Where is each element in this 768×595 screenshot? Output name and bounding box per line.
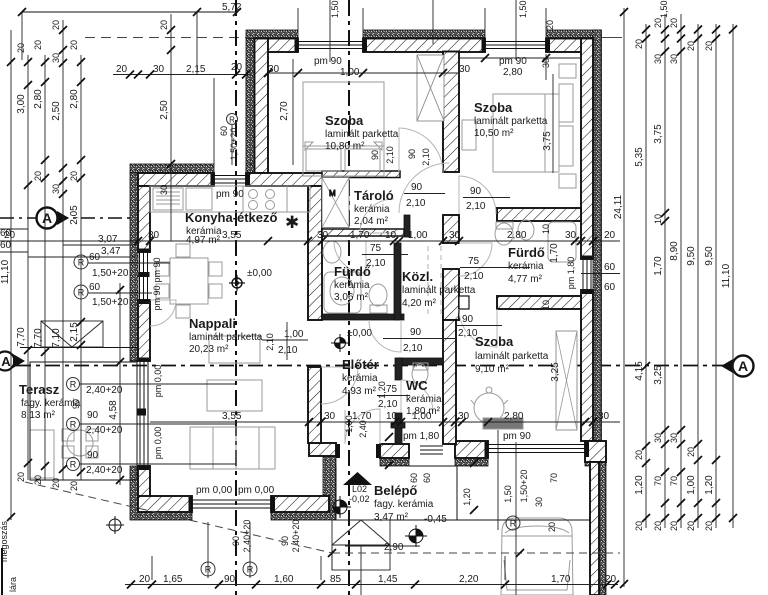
thin wall furdo1 south <box>322 314 404 320</box>
svg-text:30: 30 <box>669 433 679 443</box>
svg-text:60: 60 <box>0 240 12 251</box>
window szoba3 south 2,80 <box>488 444 585 446</box>
svg-text:1,00: 1,00 <box>340 67 360 78</box>
svg-text:2,10: 2,10 <box>466 201 486 212</box>
car <box>501 518 573 595</box>
svg-text:30: 30 <box>449 230 461 241</box>
svg-text:2,10: 2,10 <box>406 198 426 209</box>
svg-text:1,50: 1,50 <box>503 485 513 503</box>
door szoba3 <box>459 309 497 347</box>
svg-text:2,10: 2,10 <box>278 345 298 356</box>
hatch west wall segs <box>138 186 150 252</box>
svg-text:20: 20 <box>545 20 555 30</box>
right dimension cluster <box>613 8 737 588</box>
svg-text:3,47: 3,47 <box>101 246 121 257</box>
shafts and closets <box>322 55 577 430</box>
dim line R7 <box>732 24 734 528</box>
svg-text:3,55: 3,55 <box>222 230 242 241</box>
svg-text:9,50: 9,50 <box>686 246 697 266</box>
svg-text:laminált parketta: laminált parketta <box>189 332 263 343</box>
svg-text:90: 90 <box>410 327 422 338</box>
svg-text:2,40+20: 2,40+20 <box>291 520 301 553</box>
extension line x433 <box>432 0 434 44</box>
dim line x120 <box>119 283 121 485</box>
svg-text:2,50: 2,50 <box>51 101 62 121</box>
svg-text:Szoba: Szoba <box>325 113 364 128</box>
interior dim chain y422 <box>150 411 620 426</box>
svg-text:✱: ✱ <box>285 213 299 232</box>
dim line R1 24,11 <box>623 8 625 587</box>
svg-text:30: 30 <box>148 230 160 241</box>
stipple porch east wall <box>599 462 606 595</box>
svg-text:3,75: 3,75 <box>542 131 553 151</box>
dim line R2 <box>645 24 647 528</box>
window kitchen north <box>214 175 246 177</box>
top boundary line 5,72 <box>22 11 237 13</box>
svg-text:2,05: 2,05 <box>69 205 80 225</box>
svg-text:1,70: 1,70 <box>352 411 372 422</box>
svg-text:3,25: 3,25 <box>653 365 664 385</box>
entrance triangle <box>343 472 372 485</box>
svg-text:3,07: 3,07 <box>98 234 118 245</box>
door entrance <box>345 409 380 444</box>
svg-text:2,40: 2,40 <box>358 420 368 438</box>
axis line left A marker <box>0 217 135 219</box>
svg-text:60: 60 <box>422 473 432 483</box>
svg-text:20: 20 <box>669 521 679 531</box>
svg-text:L02: L02 <box>352 484 367 494</box>
szoba3 round table <box>474 393 504 423</box>
svg-text:20: 20 <box>231 62 243 73</box>
shaft szoba1 east <box>417 55 444 121</box>
svg-text:1,20: 1,20 <box>634 475 645 495</box>
svg-text:2,40+20: 2,40+20 <box>86 425 123 436</box>
svg-text:1,50+20: 1,50+20 <box>330 0 340 18</box>
svg-text:1,50+20: 1,50+20 <box>92 268 129 279</box>
hatch east wall <box>581 39 593 260</box>
szoba3 dark rect <box>483 418 523 429</box>
R marker kitchen window <box>219 114 239 166</box>
hatch nappali SE corner wall <box>309 443 336 456</box>
terrain dashed line top <box>85 37 246 39</box>
svg-text:7,10: 7,10 <box>51 328 62 348</box>
section line A-A <box>16 365 730 367</box>
svg-text:2,80: 2,80 <box>69 89 80 109</box>
svg-text:20: 20 <box>653 18 663 28</box>
svg-text:fagy. kerámia: fagy. kerámia <box>374 499 434 510</box>
svg-text:2,80: 2,80 <box>33 89 44 109</box>
walls-exterior <box>130 30 606 595</box>
svg-text:20: 20 <box>139 574 151 585</box>
svg-text:pm 90: pm 90 <box>503 431 531 442</box>
svg-text:60: 60 <box>89 252 101 263</box>
svg-text:4,15: 4,15 <box>634 361 645 381</box>
svg-text:laminált parketta: laminált parketta <box>474 116 548 127</box>
svg-text:3,06 m²: 3,06 m² <box>334 292 369 303</box>
hatch bottom wall <box>138 496 192 512</box>
svg-text:2,10: 2,10 <box>464 271 484 282</box>
stipple west upper <box>246 39 255 174</box>
svg-text:10,80 m²: 10,80 m² <box>325 141 365 152</box>
svg-text:2,40+20: 2,40+20 <box>86 465 123 476</box>
svg-text:10,50 m²: 10,50 m² <box>474 128 514 139</box>
dim line R3 <box>664 14 666 528</box>
svg-text:R: R <box>78 258 85 268</box>
dim line R6 <box>715 24 717 528</box>
furdo1 tub <box>324 272 361 313</box>
svg-text:kerámia: kerámia <box>354 204 390 215</box>
svg-text:90: 90 <box>71 399 81 409</box>
svg-text:70: 70 <box>549 473 559 483</box>
svg-text:70: 70 <box>653 476 663 486</box>
svg-text:20,23 m²: 20,23 m² <box>189 344 229 355</box>
door wc <box>401 380 433 412</box>
dashed 2,90 line <box>25 482 620 557</box>
svg-text:20: 20 <box>634 450 644 460</box>
svg-text:Fürdő: Fürdő <box>508 245 545 260</box>
svg-text:laminált parketta: laminált parketta <box>402 285 476 296</box>
kitchen table <box>170 258 208 304</box>
dim line x11 <box>10 30 12 520</box>
svg-text:60: 60 <box>409 473 419 483</box>
svg-text:2,10: 2,10 <box>458 328 478 339</box>
left A axis marker <box>37 208 70 229</box>
svg-text:1,20: 1,20 <box>462 488 472 506</box>
svg-text:10: 10 <box>653 214 663 224</box>
svg-text:1,65: 1,65 <box>163 574 183 585</box>
svg-text:20: 20 <box>547 522 557 532</box>
door szoba2 <box>399 163 449 213</box>
sofa <box>190 427 275 469</box>
svg-text:1,50+20: 1,50+20 <box>659 0 669 18</box>
svg-text:3,47 m²: 3,47 m² <box>374 512 409 523</box>
svg-text:pm 90: pm 90 <box>152 285 162 310</box>
svg-text:20: 20 <box>604 230 616 241</box>
svg-text:9,50: 9,50 <box>704 246 715 266</box>
porch paving lines <box>457 519 590 521</box>
svg-text:laminált parketta: laminált parketta <box>475 351 549 362</box>
svg-text:4,58: 4,58 <box>108 400 119 420</box>
svg-text:2,15: 2,15 <box>186 64 206 75</box>
axis vertical 2 <box>348 0 350 595</box>
doors arcs <box>150 128 497 444</box>
svg-text:2,80: 2,80 <box>507 230 527 241</box>
svg-text:20: 20 <box>69 171 79 181</box>
svg-text:20: 20 <box>116 64 128 75</box>
svg-text:30: 30 <box>153 64 165 75</box>
thin wall furdo1-kozl <box>394 243 401 320</box>
svg-text:1,70: 1,70 <box>350 230 370 241</box>
interior dim chain y241 <box>0 230 620 245</box>
windows <box>138 42 621 509</box>
door eloter-nappali <box>321 367 358 404</box>
thin wall tarolo south <box>322 229 404 236</box>
terasz R rows <box>67 378 237 422</box>
svg-text:11,10: 11,10 <box>0 259 11 284</box>
svg-text:M: M <box>329 189 336 198</box>
svg-text:20: 20 <box>653 521 663 531</box>
svg-text:Szoba: Szoba <box>474 100 513 115</box>
svg-text:20: 20 <box>16 472 26 482</box>
reference thin lines <box>18 8 622 75</box>
svg-text:A: A <box>1 354 11 369</box>
svg-text:85: 85 <box>330 574 342 585</box>
svg-text:5,35: 5,35 <box>634 147 645 167</box>
svg-text:30: 30 <box>317 230 329 241</box>
svg-text:60: 60 <box>219 126 229 136</box>
svg-text:10: 10 <box>385 230 397 241</box>
svg-text:5,72: 5,72 <box>222 2 242 13</box>
svg-text:30: 30 <box>669 54 679 64</box>
svg-text:R: R <box>70 420 77 430</box>
hatch porch east wall <box>590 462 599 595</box>
wall V2 szoba2 side <box>443 52 459 173</box>
svg-text:1,20: 1,20 <box>704 475 715 495</box>
svg-text:3,75: 3,75 <box>653 124 664 144</box>
svg-text:20: 20 <box>704 521 714 531</box>
svg-text:2,04 m²: 2,04 m² <box>354 216 389 227</box>
svg-text:24,11: 24,11 <box>613 194 624 219</box>
svg-text:laminált parketta: laminált parketta <box>325 129 399 140</box>
svg-text:2,10: 2,10 <box>403 343 423 354</box>
hatch wc south wall <box>380 444 409 458</box>
svg-text:3,00: 3,00 <box>16 94 27 114</box>
bottom R circles <box>201 562 215 576</box>
room labels <box>19 100 549 525</box>
svg-text:10: 10 <box>541 224 551 234</box>
furdo1 sink <box>323 241 341 263</box>
svg-text:20: 20 <box>704 41 714 51</box>
tarolo SE post <box>404 215 410 237</box>
svg-text:kerámia: kerámia <box>334 280 370 291</box>
svg-text:4,20 m²: 4,20 m² <box>402 298 437 309</box>
section A marker right <box>721 356 754 377</box>
belepo porch dims <box>377 381 559 532</box>
svg-text:pm 90: pm 90 <box>216 189 244 200</box>
section A marker left <box>0 352 25 371</box>
svg-text:7,70: 7,70 <box>16 327 27 347</box>
svg-text:9,10 m²: 9,10 m² <box>475 364 510 375</box>
dim line szoba2 window y58 <box>459 54 581 62</box>
crosshair symbols <box>106 275 427 547</box>
svg-text:±0,00: ±0,00 <box>347 328 372 339</box>
svg-text:20: 20 <box>33 40 43 50</box>
svg-text:11,10: 11,10 <box>721 263 732 288</box>
svg-text:90: 90 <box>87 450 99 461</box>
svg-text:20: 20 <box>51 478 61 488</box>
svg-text:pm 0,00: pm 0,00 <box>153 365 163 398</box>
dim line R4 <box>680 14 682 528</box>
dim line x63 <box>62 20 64 480</box>
stove <box>243 186 287 212</box>
svg-text:R: R <box>78 288 85 298</box>
window wc south 1,00 <box>420 445 443 447</box>
svg-text:2,15: 2,15 <box>69 322 80 342</box>
door furdo2 <box>459 243 492 276</box>
terasz table <box>67 430 93 456</box>
svg-text:1,70: 1,70 <box>551 574 571 585</box>
svg-text:lára: lára <box>8 577 18 592</box>
hatch szoba3 south wall <box>455 441 488 458</box>
door furdo1 <box>334 241 366 273</box>
closet M tarolo <box>322 178 349 228</box>
svg-text:1,20: 1,20 <box>377 381 387 399</box>
szoba2 small rect left <box>462 120 476 150</box>
svg-text:90: 90 <box>407 149 417 159</box>
top-left chain y74 <box>113 62 250 164</box>
window nappali south <box>192 499 271 501</box>
svg-text:A: A <box>42 210 52 226</box>
wall H2 furdo2 south <box>497 296 581 309</box>
dim line x171 <box>170 14 172 241</box>
stipple kitchen north <box>130 164 214 173</box>
dim line x81 <box>80 55 82 480</box>
svg-text:Tároló: Tároló <box>354 188 394 203</box>
window W1 top 1,00 <box>298 41 363 43</box>
window west pm90 <box>139 252 141 300</box>
dim line x45 <box>44 55 46 480</box>
door tarolo <box>360 199 394 233</box>
svg-text:2,80: 2,80 <box>504 411 524 422</box>
svg-text:20: 20 <box>33 171 43 181</box>
svg-text:1,45: 1,45 <box>378 574 398 585</box>
svg-text:90: 90 <box>87 410 99 421</box>
svg-text:90: 90 <box>231 536 241 546</box>
walls-interior <box>308 52 581 445</box>
wall kitchen-hall x308 <box>308 186 322 320</box>
svg-text:kerámia: kerámia <box>406 394 442 405</box>
svg-text:-0,02: -0,02 <box>349 494 370 504</box>
svg-text:R: R <box>229 116 235 125</box>
window jamb posts <box>139 40 592 512</box>
svg-text:2,10: 2,10 <box>378 399 398 410</box>
svg-text:1,60: 1,60 <box>274 574 294 585</box>
belepo slab <box>336 466 457 520</box>
svg-text:Szoba: Szoba <box>475 334 514 349</box>
svg-text:2,40+20: 2,40+20 <box>86 385 123 396</box>
svg-text:1,00: 1,00 <box>412 411 432 422</box>
svg-text:30: 30 <box>653 433 663 443</box>
thin wall wc west stub <box>395 358 402 380</box>
svg-text:20: 20 <box>16 43 26 53</box>
window extension lines top <box>298 8 546 30</box>
window W2 top 2,80 <box>485 41 546 43</box>
furdo2 toilet <box>495 223 513 245</box>
furdo2 tub <box>548 222 576 262</box>
svg-text:30: 30 <box>598 411 610 422</box>
svg-text:75: 75 <box>468 256 480 267</box>
svg-text:R: R <box>510 519 517 529</box>
svg-text:30: 30 <box>51 184 61 194</box>
west wall window mid pier <box>139 272 150 277</box>
svg-text:75: 75 <box>386 384 398 395</box>
svg-text:Közl.: Közl. <box>402 269 433 284</box>
svg-text:Terasz: Terasz <box>19 382 60 397</box>
wardrobe szoba3 <box>556 331 577 430</box>
svg-text:4,77 m²: 4,77 m² <box>508 274 543 285</box>
svg-text:20: 20 <box>69 481 79 491</box>
hatch kitchen north wall <box>138 173 214 186</box>
svg-text:30: 30 <box>159 185 169 195</box>
hatch west upper wall <box>255 39 269 174</box>
svg-text:2,70: 2,70 <box>279 101 290 121</box>
dim line R5 <box>697 24 699 528</box>
svg-text:30: 30 <box>51 53 61 63</box>
svg-text:4,97 m²: 4,97 m² <box>186 235 221 246</box>
svg-text:Nappali: Nappali <box>189 316 236 331</box>
terrace door glazing <box>139 361 141 466</box>
svg-text:20: 20 <box>634 39 644 49</box>
svg-text:2,20: 2,20 <box>459 574 479 585</box>
svg-text:7,70: 7,70 <box>33 328 44 348</box>
svg-text:20: 20 <box>669 18 679 28</box>
stipple west wall <box>130 173 138 361</box>
svg-text:3,55: 3,55 <box>222 411 242 422</box>
hatch top wall segs <box>255 39 298 53</box>
svg-text:70: 70 <box>669 476 679 486</box>
svg-text:1,00: 1,00 <box>686 475 697 495</box>
svg-text:20: 20 <box>634 521 644 531</box>
stipple top wall <box>246 30 298 39</box>
svg-text:R: R <box>70 380 77 390</box>
svg-text:1,70: 1,70 <box>549 243 560 263</box>
svg-text:60: 60 <box>89 282 101 293</box>
svg-text:R: R <box>70 460 77 470</box>
wall szoba1 south thin <box>322 171 400 178</box>
svg-text:20: 20 <box>51 20 61 30</box>
svg-text:pm 90: pm 90 <box>314 56 342 67</box>
door terrace arc hint <box>150 300 176 326</box>
svg-text:2,10: 2,10 <box>421 148 431 166</box>
door szoba1 <box>399 128 443 173</box>
svg-text:2,50: 2,50 <box>159 100 170 120</box>
bottom dimension line <box>125 520 619 589</box>
svg-text:pm 0,00: pm 0,00 <box>153 427 163 460</box>
wall H1 szoba2 south <box>497 208 581 221</box>
svg-text:±0,00: ±0,00 <box>247 268 272 279</box>
svg-text:kerámia: kerámia <box>508 261 544 272</box>
svg-text:90: 90 <box>370 150 380 160</box>
svg-text:2,10: 2,10 <box>265 333 275 351</box>
svg-text:20: 20 <box>686 41 696 51</box>
svg-text:pm 1,80: pm 1,80 <box>566 257 576 290</box>
svg-text:pm 0,00: pm 0,00 <box>238 485 275 496</box>
svg-text:1,00: 1,00 <box>408 230 428 241</box>
R block 2 <box>74 282 152 308</box>
left cluster bottom ticks <box>16 459 85 491</box>
svg-text:1,50+20: 1,50+20 <box>519 470 529 503</box>
svg-text:20: 20 <box>686 521 696 531</box>
svg-text:10: 10 <box>386 411 398 422</box>
svg-text:30: 30 <box>458 411 470 422</box>
svg-text:20: 20 <box>686 447 696 457</box>
bed szoba2 <box>493 94 559 172</box>
svg-text:20: 20 <box>605 574 617 585</box>
wc toilet <box>412 364 428 384</box>
door kozl-eloter <box>369 320 401 352</box>
window furdo2 east pm1,80 <box>582 259 584 290</box>
svg-text:2,40+20: 2,40+20 <box>242 520 252 553</box>
svg-text:20: 20 <box>33 475 43 485</box>
svg-text:30: 30 <box>268 64 280 75</box>
furdo2 sink <box>518 220 534 240</box>
bed szoba1 <box>303 82 384 176</box>
svg-text:-0,45: -0,45 <box>424 514 447 525</box>
svg-text:30: 30 <box>534 497 544 507</box>
svg-text:30: 30 <box>565 230 577 241</box>
svg-text:Konyha-étkező: Konyha-étkező <box>185 210 278 225</box>
svg-text:90: 90 <box>470 186 482 197</box>
